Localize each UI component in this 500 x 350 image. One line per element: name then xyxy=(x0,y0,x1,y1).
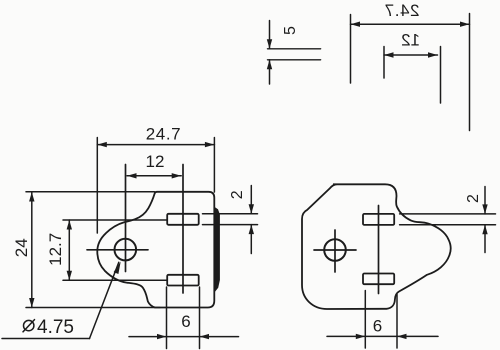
mirrored dimension 24.7 top right xyxy=(351,14,470,131)
slot centerline right view xyxy=(378,206,380,294)
right view outline xyxy=(302,184,451,309)
svg-text:5: 5 xyxy=(282,26,299,35)
svg-text:6: 6 xyxy=(373,317,382,336)
svg-text:24.7: 24.7 xyxy=(146,125,182,144)
label diameter 4.75 xyxy=(24,320,34,330)
svg-text:2: 2 xyxy=(465,194,482,203)
svg-text:24.7: 24.7 xyxy=(384,1,420,20)
dimension 6 right view xyxy=(327,291,438,349)
thickness plate lines xyxy=(268,49,321,60)
hole with crosshair right view xyxy=(324,239,346,261)
slot centerline left view xyxy=(182,165,184,294)
bottom slot left view xyxy=(167,275,199,286)
bottom slot right view xyxy=(363,274,394,285)
hole C1 (Ø4.75) xyxy=(115,239,137,261)
crosshair horizontal right view xyxy=(314,249,356,251)
crosshair horizontal through hole xyxy=(87,249,148,251)
svg-text:12.7: 12.7 xyxy=(46,233,65,266)
black adhesive strip on right edge xyxy=(215,207,220,292)
svg-text:12: 12 xyxy=(146,152,165,171)
dimension 2 right view xyxy=(400,187,496,253)
left view outline xyxy=(97,192,214,308)
crosshair vertical right view xyxy=(334,230,336,272)
svg-text:2: 2 xyxy=(229,190,246,199)
top slot left view xyxy=(167,214,199,225)
dimension 12 top left view xyxy=(127,175,181,177)
dimension 2 left view xyxy=(203,186,258,254)
top slot right view xyxy=(363,214,394,225)
dimension 24.7 top left view xyxy=(97,138,214,234)
svg-text:24: 24 xyxy=(12,238,31,257)
crosshair vertical / 12 extension through hole xyxy=(125,165,127,272)
svg-text:12: 12 xyxy=(401,30,420,49)
mirrored dimension 12 top right xyxy=(384,47,441,104)
leader line for hole diameter xyxy=(2,262,119,338)
dimension 12.7 xyxy=(63,220,167,280)
dimension 6 left view xyxy=(129,287,239,349)
dimension 5 thickness xyxy=(269,21,271,85)
svg-text:6: 6 xyxy=(181,312,190,331)
svg-text:4.75: 4.75 xyxy=(37,317,74,338)
dimension 24 left side xyxy=(26,192,160,308)
